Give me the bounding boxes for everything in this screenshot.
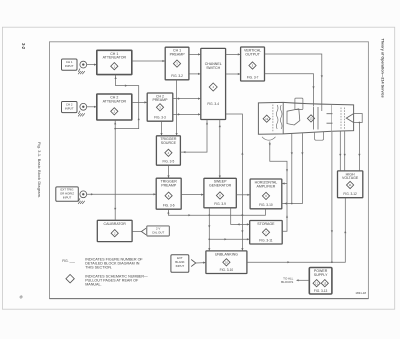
svg-text:AMPLIFIER: AMPLIFIER xyxy=(257,184,276,188)
block CH 1 attenuator xyxy=(97,50,132,74)
block unblanking xyxy=(206,251,247,274)
svg-text:SOURCE: SOURCE xyxy=(161,141,177,145)
CRT horizontal deflection plates xyxy=(327,114,333,124)
wire calibrator branch to CH1 attenuator xyxy=(115,75,140,129)
block high voltage xyxy=(338,171,363,198)
svg-text:3-2: 3-2 xyxy=(21,43,26,50)
wire J1 to CH 1 attenuator xyxy=(87,64,97,66)
wire channel switch to unblanking trunk xyxy=(226,114,244,251)
svg-text:FIG. 3-5: FIG. 3-5 xyxy=(163,160,175,164)
svg-text:GENERATOR: GENERATOR xyxy=(209,184,232,188)
wire trigger preamp to sweep generator xyxy=(181,194,204,196)
wire junction to storage lower xyxy=(209,238,249,240)
front panel label 2 V CAL OUT xyxy=(147,226,170,236)
wire holdoff bus xyxy=(167,209,265,216)
wire J2 to CH 2 attenuator xyxy=(87,106,97,108)
wire CH2 preamp to trigger source xyxy=(160,121,162,136)
front panel label CH 2 INPUT xyxy=(62,102,78,113)
wire channel switch to sweep generator xyxy=(219,120,221,179)
svg-text:Theory of Operation—214 Servic: Theory of Operation—214 Service xyxy=(380,39,384,98)
CRT screen chevron xyxy=(346,114,353,123)
wire trigger source to trigger preamp xyxy=(167,165,169,178)
wire channel switch to vertical output upper xyxy=(226,53,241,55)
svg-text:FIG. 3-2: FIG. 3-2 xyxy=(171,74,183,78)
svg-text:FIG. 3-9: FIG. 3-9 xyxy=(214,202,226,206)
block channel switch xyxy=(201,48,226,119)
block CH 1 preamp xyxy=(165,47,189,80)
wire CH1 attenuator to CH1 preamp xyxy=(132,60,165,62)
block horizontal amplifier xyxy=(250,179,282,209)
svg-text:MANUAL.: MANUAL. xyxy=(85,283,101,287)
svg-text:FIG. ___: FIG. ___ xyxy=(62,259,75,263)
svg-text:INPUT: INPUT xyxy=(176,264,185,268)
wire sweep generator to horizontal amplifier xyxy=(236,194,250,196)
wire sweep generator to storage upper xyxy=(231,208,250,226)
block sweep generator xyxy=(204,178,236,208)
block CH 2 attenuator xyxy=(97,94,132,120)
CRT screen section divider xyxy=(331,104,333,131)
CRT grid tab above gun xyxy=(295,98,303,109)
ground at J3 xyxy=(78,198,85,204)
svg-text:SUPPLY: SUPPLY xyxy=(314,273,328,277)
svg-text:UNBLANKING: UNBLANKING xyxy=(215,252,238,256)
svg-text:INPUT: INPUT xyxy=(65,64,74,68)
wire CRT base to horizontal amplifier and storage xyxy=(269,142,288,232)
ground at J2 xyxy=(78,111,85,117)
svg-text:INPUT: INPUT xyxy=(63,196,72,200)
svg-text:ATTENUATOR: ATTENUATOR xyxy=(103,99,127,103)
diagram border frame xyxy=(50,42,369,299)
ground at J1 xyxy=(78,69,85,75)
front panel label EXT BLANK INPUT xyxy=(171,255,189,272)
block vertical output xyxy=(241,47,265,81)
wire CRT right side pair xyxy=(354,114,363,123)
power supply diamond 13 xyxy=(321,280,328,287)
CRT base underbrace xyxy=(262,137,276,140)
block trigger preamp xyxy=(156,178,181,209)
CRT base box divider xyxy=(282,102,284,133)
wire CRT right to high voltage xyxy=(358,122,360,171)
CRT gun diamond 13 xyxy=(307,115,314,122)
svg-text:OUTPUT: OUTPUT xyxy=(245,52,260,56)
CRT base dashed line xyxy=(272,105,274,133)
svg-text:FIG. 3-10: FIG. 3-10 xyxy=(259,203,273,207)
wire CH1 preamp to channel switch upper xyxy=(189,53,201,55)
block trigger source xyxy=(156,136,180,165)
svg-text:Fig. 3-1. Basic Block Diagram.: Fig. 3-1. Basic Block Diagram. xyxy=(37,142,42,198)
svg-text:INPUT: INPUT xyxy=(65,107,74,111)
svg-text:BLOCKS: BLOCKS xyxy=(281,280,293,284)
svg-text:VOLTAGE: VOLTAGE xyxy=(342,176,359,180)
connector J3 ext trig input xyxy=(80,191,87,198)
svg-text:SWITCH: SWITCH xyxy=(206,66,220,70)
CRT screen dashed lines xyxy=(341,108,345,130)
front panel label EXT TRIG OR HORIZ INPUT xyxy=(56,187,79,201)
CRT electron gun cup xyxy=(287,109,300,125)
CRT envelope outline xyxy=(258,102,353,134)
block CH 2 preamp xyxy=(147,93,173,121)
wire vertical output to CRT upper plate xyxy=(265,54,323,111)
svg-text:PREAMP: PREAMP xyxy=(170,53,186,57)
svg-text:THIS SECTION.: THIS SECTION. xyxy=(85,266,112,270)
svg-text:1831-18: 1831-18 xyxy=(355,291,366,295)
jack symbol at EXT BLANK input xyxy=(191,260,196,267)
wire calibrator riser to CH2 attenuator xyxy=(114,120,116,220)
power supply diamond 12 xyxy=(313,280,320,287)
svg-text:FIG. 3-4: FIG. 3-4 xyxy=(207,102,219,106)
svg-text:FIG. 3-13: FIG. 3-13 xyxy=(314,289,328,293)
wire channel switch to vertical output lower xyxy=(226,73,241,75)
block power supply xyxy=(309,268,332,295)
wire vertical output to CRT lower plate xyxy=(265,74,315,107)
svg-text:FIG. 3-10: FIG. 3-10 xyxy=(220,268,234,272)
svg-text:@: @ xyxy=(20,295,23,299)
wire CH2 preamp to channel switch upper xyxy=(173,98,201,100)
wire EXT BLANK to unblanking xyxy=(196,262,206,264)
svg-text:FIG. 3-6: FIG. 3-6 xyxy=(163,204,175,208)
svg-text:FIG. 3-12: FIG. 3-12 xyxy=(343,192,357,196)
wire sweep generator to unblanking xyxy=(208,208,210,251)
svg-text:FIG. 3-7: FIG. 3-7 xyxy=(247,75,259,79)
wire unblanking to high voltage xyxy=(247,198,346,264)
wire CH2 attenuator to CH2 preamp xyxy=(132,101,147,103)
block calibrator xyxy=(97,220,132,241)
CRT vertical deflection plates xyxy=(314,107,319,130)
legend diamond symbol xyxy=(66,275,74,283)
connector J1 CH 1 input xyxy=(80,61,87,68)
block storage xyxy=(250,221,283,245)
wire CRT lead c to horizontal amplifier xyxy=(282,133,304,204)
svg-text:STORAGE: STORAGE xyxy=(257,222,275,226)
CRT lower plate tab xyxy=(315,132,324,140)
wire CRT grid lead down xyxy=(331,132,333,262)
wire CRT lead b down xyxy=(291,134,293,204)
jack symbol at 2V CAL OUT xyxy=(141,228,146,235)
wire CH1 preamp to channel switch lower xyxy=(189,73,201,75)
front panel label CH 1 INPUT xyxy=(62,59,78,70)
wire trigger source to channel switch xyxy=(180,120,208,154)
wire J3 to trigger preamp xyxy=(87,193,156,195)
wire calibrator to cal out jack xyxy=(132,231,141,233)
svg-text:CAL OUT: CAL OUT xyxy=(152,231,164,235)
wire CH1 preamp to trigger source xyxy=(176,80,178,136)
connector J2 CH 2 input xyxy=(80,103,87,110)
svg-text:CALIBRATOR: CALIBRATOR xyxy=(104,222,127,226)
svg-text:ATTENUATOR: ATTENUATOR xyxy=(103,56,127,60)
CRT base diamond 12 xyxy=(263,115,270,122)
svg-text:PREAMP: PREAMP xyxy=(161,184,177,188)
wire power supply to all blocks xyxy=(296,279,309,281)
svg-text:PREAMP: PREAMP xyxy=(153,98,169,102)
svg-text:FIG. 3-11: FIG. 3-11 xyxy=(259,238,272,242)
wire branch into horizontal amplifier right xyxy=(282,182,287,184)
svg-text:FIG. 3-3: FIG. 3-3 xyxy=(154,116,166,120)
wire CRT lead to high voltage 1 xyxy=(339,132,341,171)
wire CRT lead to high voltage 2 xyxy=(344,131,346,171)
wire CH2 preamp to channel switch lower xyxy=(173,113,201,115)
CRT heater filament wavy lines xyxy=(276,105,282,129)
